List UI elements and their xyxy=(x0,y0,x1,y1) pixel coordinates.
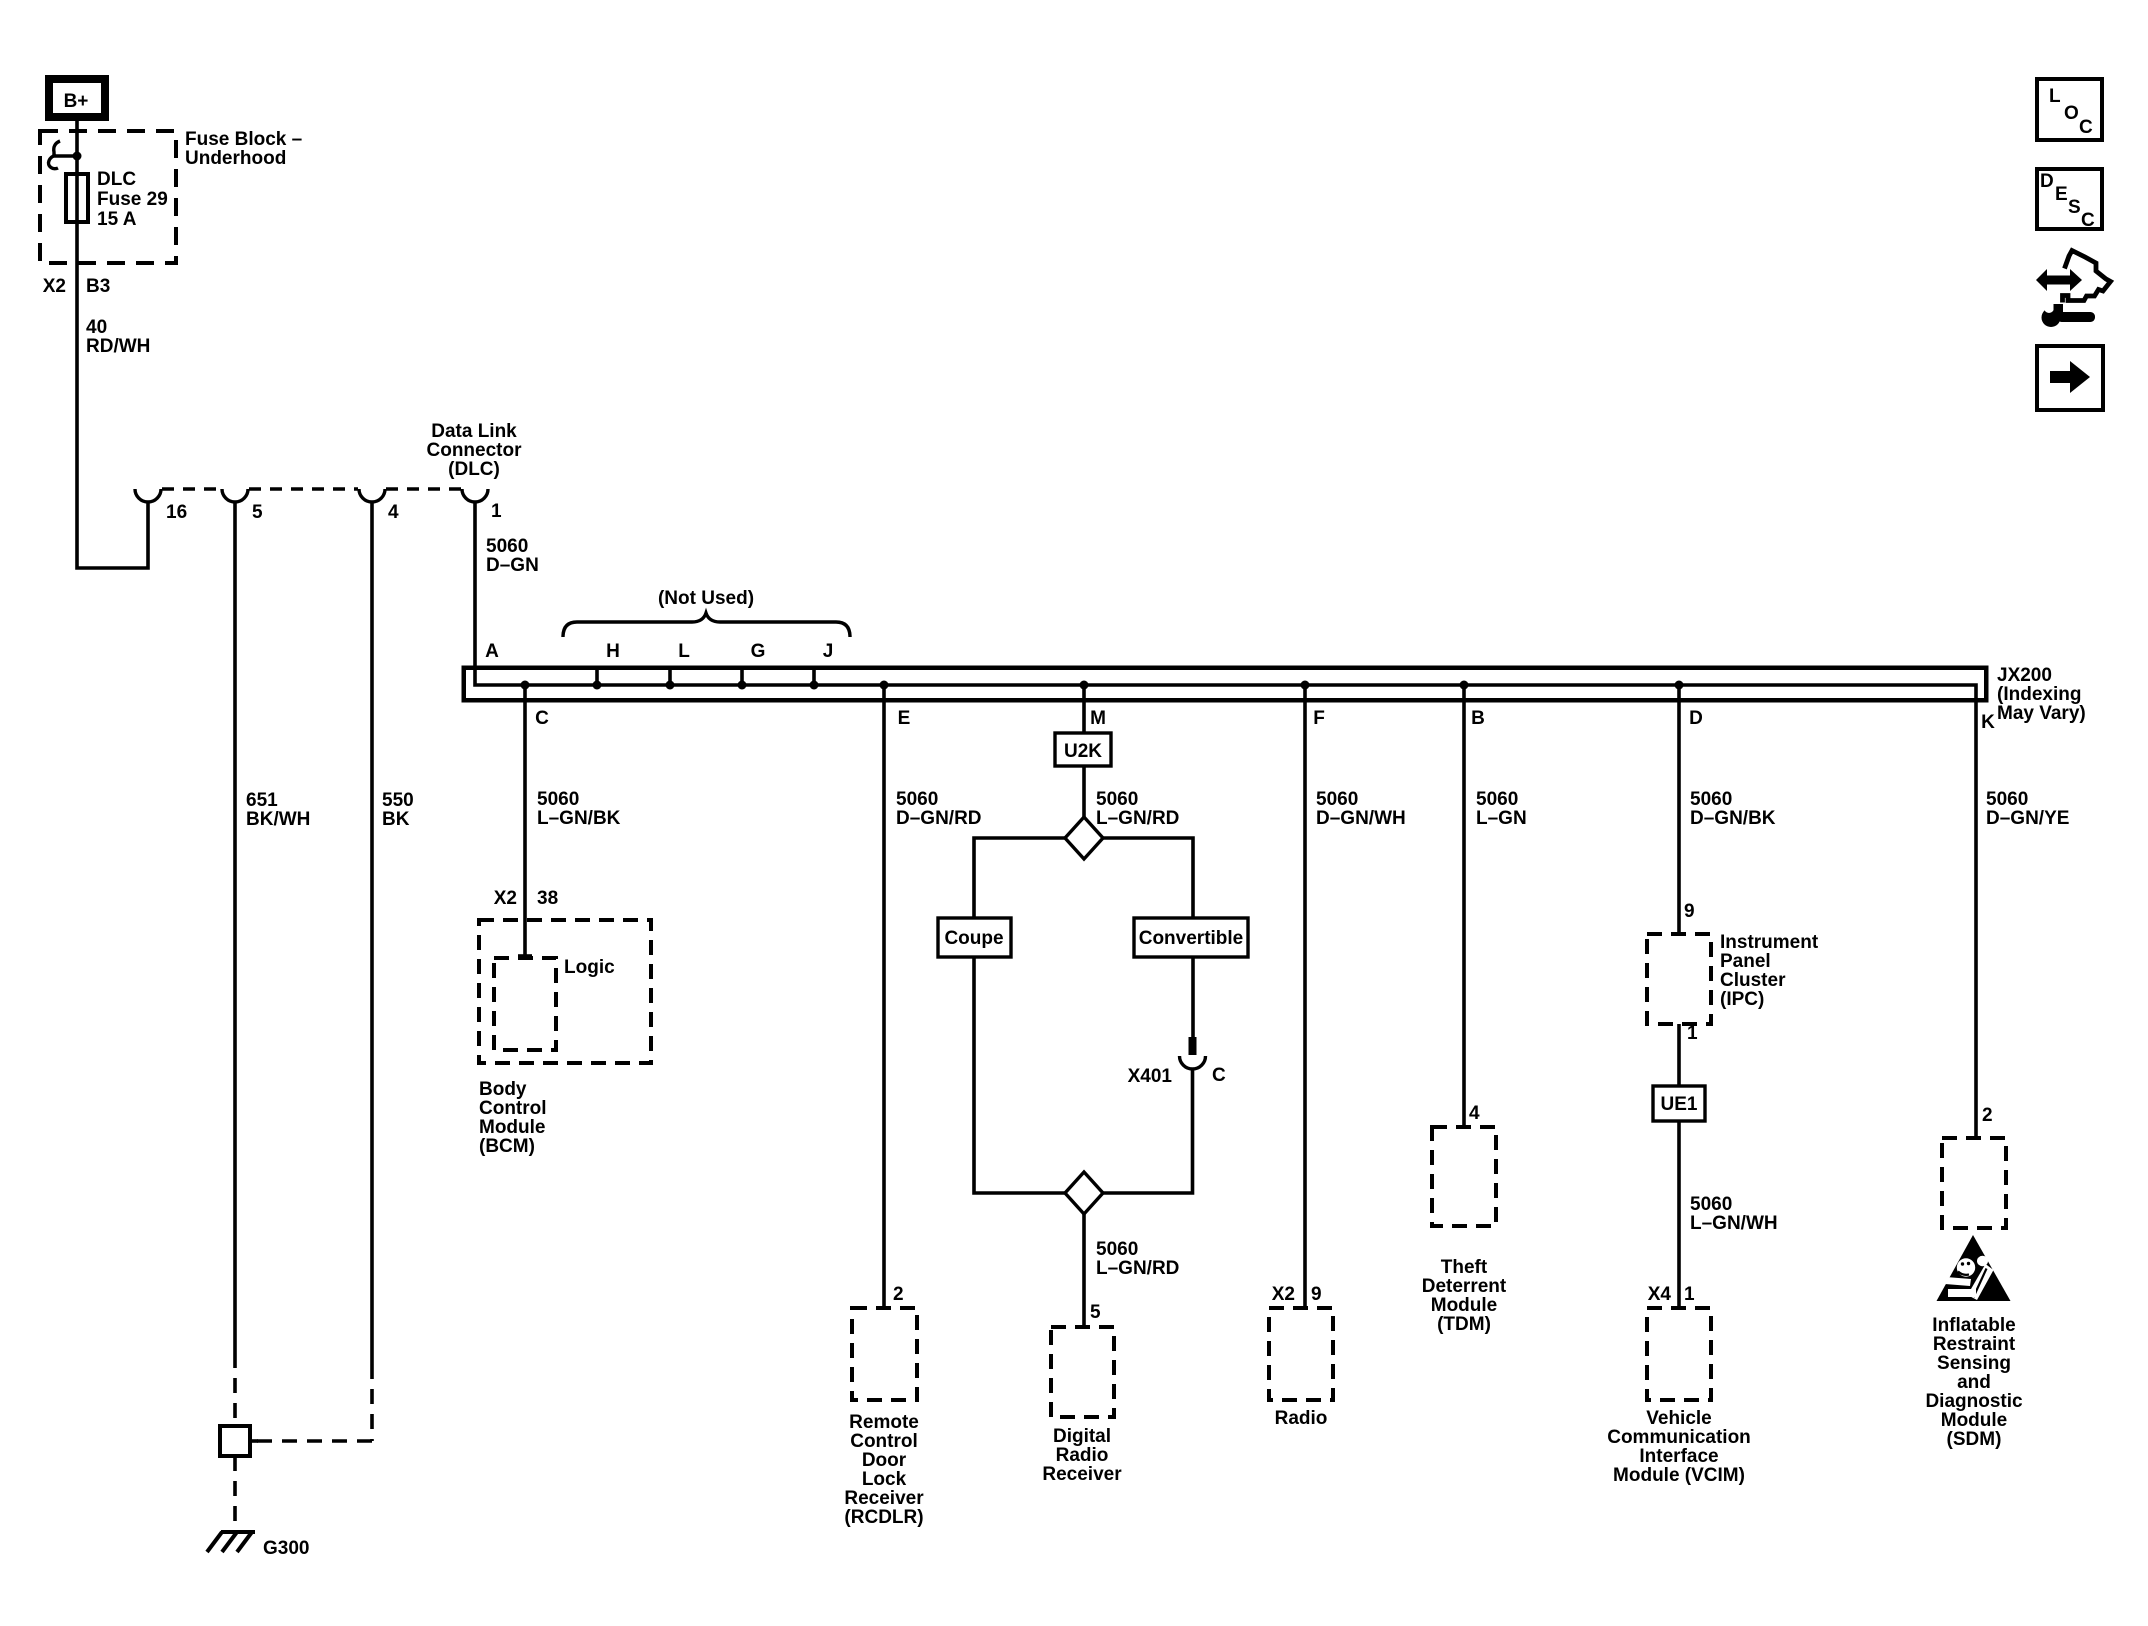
svg-text:E: E xyxy=(898,708,911,729)
svg-text:9: 9 xyxy=(1684,901,1695,922)
wire U2K to split diamond xyxy=(1082,766,1086,818)
svg-text:(DLC): (DLC) xyxy=(448,459,500,480)
BCM outer dashed box xyxy=(479,920,651,1063)
svg-text:Data Link: Data Link xyxy=(431,421,517,442)
power feed B+ xyxy=(49,79,105,117)
svg-text:L–GN/WH: L–GN/WH xyxy=(1690,1213,1778,1234)
label Theft Deterrent Module (TDM) xyxy=(1422,1257,1507,1335)
DLC dashed bridge lines xyxy=(162,487,461,490)
label 5060 D-GN/YE xyxy=(1986,789,2069,829)
svg-text:2: 2 xyxy=(1982,1105,1993,1126)
UE1 option box xyxy=(1653,1086,1705,1121)
wire merge to Digital Radio Receiver xyxy=(1082,1214,1086,1327)
svg-text:Logic: Logic xyxy=(564,957,615,978)
svg-text:5060: 5060 xyxy=(1476,789,1518,810)
svg-text:G: G xyxy=(751,641,766,662)
svg-text:G300: G300 xyxy=(263,1538,309,1559)
svg-text:(Indexing: (Indexing xyxy=(1997,684,2081,705)
svg-text:9: 9 xyxy=(1311,1284,1322,1305)
label 5060 D-GN/RD xyxy=(896,789,982,829)
svg-text:5: 5 xyxy=(1090,1302,1101,1323)
svg-text:DLC: DLC xyxy=(97,169,136,190)
svg-text:(IPC): (IPC) xyxy=(1720,989,1764,1010)
Coupe option box xyxy=(938,918,1011,957)
svg-text:Restraint: Restraint xyxy=(1933,1334,2016,1355)
svg-text:J: J xyxy=(823,641,834,662)
wire 5060 L-GN/WH UE1 to VCIM xyxy=(1677,1121,1681,1308)
svg-text:Vehicle: Vehicle xyxy=(1646,1408,1712,1429)
wire 5060 D-GN/BK pin D to IPC xyxy=(1677,685,1681,934)
wire split to Convertible xyxy=(1103,838,1193,918)
label 40 RD/WH xyxy=(86,317,150,357)
svg-text:S: S xyxy=(2068,197,2081,218)
svg-text:L: L xyxy=(2049,86,2061,107)
label Inflatable Restraint Sensing and Diagnostic Module (SDM) xyxy=(1925,1315,2023,1450)
svg-text:May Vary): May Vary) xyxy=(1997,703,2086,724)
label 5060 L-GN/BK xyxy=(537,789,621,829)
label 651 BK/WH xyxy=(246,790,310,830)
labels connector X2 terminal 9 (Radio) xyxy=(1272,1284,1322,1305)
svg-text:Panel: Panel xyxy=(1720,951,1771,972)
wire X401 down to merge xyxy=(1103,1070,1193,1194)
svg-text:Control: Control xyxy=(479,1098,547,1119)
svg-text:Fuse Block –: Fuse Block – xyxy=(185,129,302,150)
svg-text:Fuse 29: Fuse 29 xyxy=(97,189,168,210)
label 550 BK xyxy=(382,790,414,830)
svg-text:X401: X401 xyxy=(1128,1066,1173,1087)
svg-text:Lock: Lock xyxy=(862,1469,907,1490)
svg-text:5060: 5060 xyxy=(1690,1194,1732,1215)
VCIM dashed box xyxy=(1647,1308,1711,1400)
wire IPC to UE1 xyxy=(1677,1024,1681,1086)
svg-text:B: B xyxy=(1471,708,1485,729)
merge diamond xyxy=(1065,1172,1103,1214)
svg-text:X4: X4 xyxy=(1648,1284,1672,1305)
Digital Radio Receiver dashed box xyxy=(1051,1327,1114,1417)
label 5060 L-GN/RD upper xyxy=(1096,789,1179,829)
svg-text:U2K: U2K xyxy=(1064,741,1102,762)
labels connector X4 terminal 1 xyxy=(1648,1284,1695,1305)
RCDLR dashed box xyxy=(852,1308,917,1400)
svg-text:1: 1 xyxy=(1684,1284,1695,1305)
wire pin M to U2K xyxy=(1082,685,1086,733)
icon LOC box xyxy=(2037,79,2102,140)
icon DESC box xyxy=(2037,169,2102,231)
svg-text:5: 5 xyxy=(252,502,263,523)
svg-text:Sensing: Sensing xyxy=(1937,1353,2011,1374)
svg-text:5060: 5060 xyxy=(896,789,938,810)
label 5060 D-GN/BK xyxy=(1690,789,1776,829)
(Not Used) brace xyxy=(563,613,850,637)
svg-text:D–GN: D–GN xyxy=(486,555,539,576)
svg-text:Control: Control xyxy=(850,1431,918,1452)
svg-text:X2: X2 xyxy=(43,276,66,297)
svg-text:(RCDLR): (RCDLR) xyxy=(844,1507,923,1528)
svg-text:E: E xyxy=(2055,184,2068,205)
svg-text:(SDM): (SDM) xyxy=(1947,1429,2002,1450)
svg-text:Connector: Connector xyxy=(427,440,523,461)
svg-text:O: O xyxy=(2064,103,2079,124)
fuse block - underhood dashed box xyxy=(40,131,176,263)
label Fuse Block - Underhood xyxy=(185,129,302,169)
svg-text:Module: Module xyxy=(1431,1295,1498,1316)
svg-text:Module: Module xyxy=(1941,1410,2008,1431)
svg-text:Diagnostic: Diagnostic xyxy=(1925,1391,2023,1412)
labels X401 and terminal C xyxy=(1128,1065,1226,1087)
svg-text:D–GN/RD: D–GN/RD xyxy=(896,808,982,829)
label Vehicle Communication Interface Module (VCIM) xyxy=(1607,1408,1751,1486)
svg-text:B+: B+ xyxy=(64,91,89,112)
svg-text:C: C xyxy=(535,708,549,729)
BCM logic inner dashed box xyxy=(494,958,556,1050)
svg-text:Body: Body xyxy=(479,1079,527,1100)
label Remote Control Door Lock Receiver (RCDLR) xyxy=(844,1412,924,1528)
svg-text:Digital: Digital xyxy=(1053,1426,1111,1447)
svg-text:F: F xyxy=(1313,708,1325,729)
svg-text:BK/WH: BK/WH xyxy=(246,809,310,830)
svg-text:Theft: Theft xyxy=(1441,1257,1488,1278)
svg-text:Module (VCIM): Module (VCIM) xyxy=(1613,1465,1745,1486)
wire 40 RD/WH from B+ through fuse to DLC pin 16 xyxy=(77,121,148,568)
svg-text:Coupe: Coupe xyxy=(944,928,1003,949)
wire 651 BK/WH DLC pin 5 xyxy=(233,503,237,1426)
wire Coupe down to merge xyxy=(974,957,1065,1193)
svg-text:(TDM): (TDM) xyxy=(1437,1314,1491,1335)
svg-text:C: C xyxy=(2081,210,2095,231)
svg-text:K: K xyxy=(1981,712,1995,733)
svg-text:1: 1 xyxy=(491,501,502,522)
svg-text:Cluster: Cluster xyxy=(1720,970,1786,991)
svg-text:Door: Door xyxy=(862,1450,907,1471)
svg-text:M: M xyxy=(1090,708,1106,729)
svg-text:X2: X2 xyxy=(494,888,517,909)
svg-text:4: 4 xyxy=(1469,1103,1480,1124)
SDM dashed box xyxy=(1942,1138,2006,1228)
bus stubs H L G J xyxy=(597,667,814,685)
label Digital Radio Receiver xyxy=(1042,1426,1122,1485)
svg-text:Underhood: Underhood xyxy=(185,148,286,169)
svg-text:C: C xyxy=(2079,117,2093,138)
labels connector X2 terminal 38 xyxy=(494,888,558,909)
svg-text:Inflatable: Inflatable xyxy=(1932,1315,2015,1336)
svg-text:38: 38 xyxy=(537,888,558,909)
U2K option box xyxy=(1055,733,1111,766)
wire 5060 L-GN/BK pin C to BCM xyxy=(518,685,532,956)
bus pin letters top A H L G J xyxy=(485,641,833,662)
svg-text:JX200: JX200 xyxy=(1997,665,2052,686)
wire split to Coupe xyxy=(974,838,1065,918)
label JX200 (Indexing May Vary) xyxy=(1997,665,2086,724)
IPC dashed box xyxy=(1647,934,1711,1024)
svg-text:Radio: Radio xyxy=(1056,1445,1109,1466)
svg-text:15 A: 15 A xyxy=(97,209,137,230)
svg-text:UE1: UE1 xyxy=(1661,1094,1698,1115)
SIR warning triangle icon xyxy=(1937,1235,2011,1301)
label 5060 L-GN/RD lower xyxy=(1096,1239,1179,1279)
icon diagnostic pointer: double arrow xyxy=(2036,269,2082,291)
label Data Link Connector (DLC) xyxy=(427,421,523,480)
wire 5060 L-GN pin B to TDM xyxy=(1462,685,1466,1127)
fuse DLC Fuse 29 15 A xyxy=(66,174,88,222)
svg-text:(BCM): (BCM) xyxy=(479,1136,535,1157)
svg-text:16: 16 xyxy=(166,502,187,523)
svg-text:L–GN/RD: L–GN/RD xyxy=(1096,808,1179,829)
svg-text:D: D xyxy=(1689,708,1703,729)
label 5060 L-GN/WH xyxy=(1690,1194,1778,1234)
labels connector X2 terminal B3 xyxy=(43,276,111,297)
svg-text:(Not Used): (Not Used) xyxy=(658,588,754,609)
svg-text:H: H xyxy=(606,641,620,662)
svg-text:5060: 5060 xyxy=(1096,789,1138,810)
wire 5060 D-GN/WH pin F to Radio xyxy=(1303,685,1307,1308)
svg-text:5060: 5060 xyxy=(1096,1239,1138,1260)
label Instrument Panel Cluster (IPC) xyxy=(1720,932,1819,1010)
svg-text:BK: BK xyxy=(382,809,410,830)
icon diagnostic pointer: wrench xyxy=(2042,300,2096,327)
svg-text:L: L xyxy=(678,641,690,662)
ground G300 xyxy=(207,1532,255,1552)
TDM dashed box xyxy=(1432,1127,1496,1226)
svg-text:Receiver: Receiver xyxy=(1042,1464,1122,1485)
svg-text:Communication: Communication xyxy=(1607,1427,1751,1448)
inline connector X401 terminal C xyxy=(1180,1037,1206,1069)
svg-text:Radio: Radio xyxy=(1275,1408,1328,1429)
wire 5060 D-GN/RD pin E to RCDLR xyxy=(882,685,886,1308)
svg-text:Interface: Interface xyxy=(1639,1446,1718,1467)
svg-text:A: A xyxy=(485,641,499,662)
label 5060 D-GN/WH xyxy=(1316,789,1406,829)
svg-text:550: 550 xyxy=(382,790,414,811)
bus pin letters bottom C E M F B D K xyxy=(535,708,1995,733)
label 5060 L-GN xyxy=(1476,789,1527,829)
svg-text:5060: 5060 xyxy=(537,789,579,810)
svg-text:D: D xyxy=(2040,171,2054,192)
svg-text:5060: 5060 xyxy=(1986,789,2028,810)
svg-text:X2: X2 xyxy=(1272,1284,1295,1305)
svg-text:4: 4 xyxy=(388,502,399,523)
splice box xyxy=(220,1426,250,1456)
label 5060 D-GN xyxy=(486,536,539,576)
svg-text:C: C xyxy=(1212,1065,1226,1086)
wire Convertible down to X401 xyxy=(1191,957,1195,1038)
label Body Control Module (BCM) xyxy=(479,1079,547,1157)
svg-text:D–GN/BK: D–GN/BK xyxy=(1690,808,1776,829)
svg-text:Module: Module xyxy=(479,1117,546,1138)
DLC connector cups pins 16 5 4 1 xyxy=(135,489,488,502)
svg-text:B3: B3 xyxy=(86,276,110,297)
wire 550 BK DLC pin 4 xyxy=(250,503,372,1441)
svg-text:L–GN/RD: L–GN/RD xyxy=(1096,1258,1179,1279)
wire 5060 D-GN from DLC pin1 down, bus middle rail, drop to K xyxy=(475,503,1976,1138)
svg-text:Receiver: Receiver xyxy=(844,1488,924,1509)
svg-text:Convertible: Convertible xyxy=(1139,928,1244,949)
split diamond xyxy=(1065,817,1103,859)
svg-text:Deterrent: Deterrent xyxy=(1422,1276,1507,1297)
wire splice to ground (dashed) xyxy=(233,1456,237,1526)
junction dots on bus rail xyxy=(521,681,1684,690)
svg-text:5060: 5060 xyxy=(486,536,528,557)
svg-text:and: and xyxy=(1957,1372,1991,1393)
svg-text:Remote: Remote xyxy=(849,1412,919,1433)
DLC pin labels 16 5 4 1 xyxy=(166,501,502,523)
svg-text:5060: 5060 xyxy=(1316,789,1358,810)
svg-text:1: 1 xyxy=(1687,1023,1698,1044)
svg-text:40: 40 xyxy=(86,317,107,338)
Radio dashed box xyxy=(1269,1308,1333,1400)
svg-text:RD/WH: RD/WH xyxy=(86,336,150,357)
svg-text:L–GN: L–GN xyxy=(1476,808,1527,829)
svg-text:Instrument: Instrument xyxy=(1720,932,1819,953)
icon diagnostic pointer: outline arrow xyxy=(2063,251,2111,303)
svg-text:2: 2 xyxy=(893,1284,904,1305)
svg-text:L–GN/BK: L–GN/BK xyxy=(537,808,621,829)
bus JX200 outline rectangle xyxy=(464,668,1987,701)
label DLC Fuse 29 15 A xyxy=(97,169,168,230)
svg-text:651: 651 xyxy=(246,790,278,811)
Convertible option box xyxy=(1134,918,1248,957)
icon next page arrow box xyxy=(2037,346,2103,410)
fuse block terminal hook xyxy=(49,141,82,169)
svg-text:5060: 5060 xyxy=(1690,789,1732,810)
svg-text:D–GN/YE: D–GN/YE xyxy=(1986,808,2069,829)
svg-text:D–GN/WH: D–GN/WH xyxy=(1316,808,1406,829)
